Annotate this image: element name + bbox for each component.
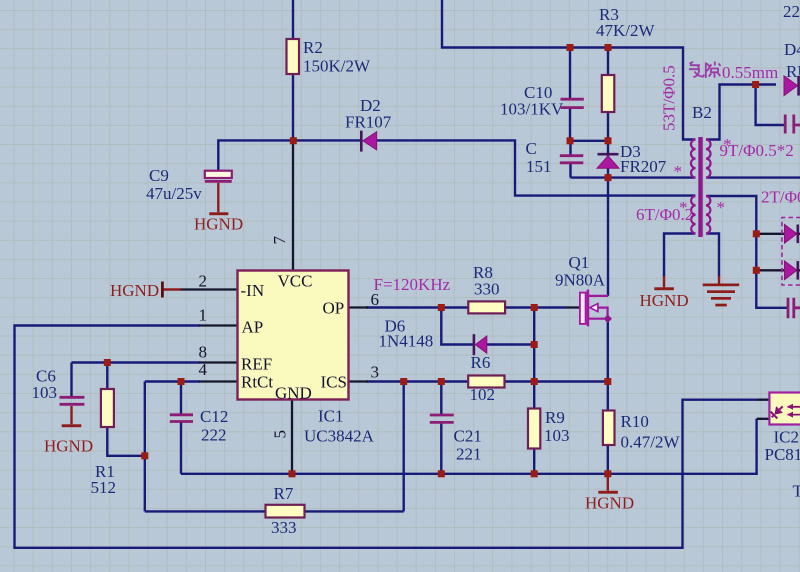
node ICS-R7 <box>400 378 407 385</box>
svg-text:5: 5 <box>271 430 290 439</box>
wire RtCt row <box>145 380 200 382</box>
wire OP node down to ICS row <box>533 308 535 382</box>
wire Q1 source / R10 column <box>607 319 609 474</box>
node VCC junction <box>290 137 297 144</box>
resistor R8 <box>468 301 505 313</box>
svg-text:8: 8 <box>199 343 208 362</box>
transistor Q1 MOSFET <box>566 290 612 327</box>
node C10 bottom <box>567 137 574 144</box>
svg-text:C: C <box>526 139 537 158</box>
wire 9T winding bottom row <box>706 176 800 178</box>
svg-text:4: 4 <box>199 360 208 379</box>
node diode B branch <box>753 267 760 274</box>
wire R3 column <box>607 48 609 141</box>
svg-text:1: 1 <box>199 306 208 325</box>
wire C21 column <box>440 382 442 474</box>
svg-text:9N80A: 9N80A <box>555 271 606 290</box>
svg-text:RtCt: RtCt <box>241 373 273 392</box>
svg-text:C21: C21 <box>454 427 482 446</box>
wire C12 column <box>180 382 182 474</box>
node ground row R9 <box>531 470 538 477</box>
power port HGND below C9 <box>194 183 243 234</box>
svg-text:IC2: IC2 <box>774 428 800 447</box>
svg-text:VCC: VCC <box>278 272 313 291</box>
wire ground row to IC2 lower pin <box>181 419 757 474</box>
svg-text:2: 2 <box>199 272 208 291</box>
node D4 branch <box>752 81 759 88</box>
wire C10 column <box>569 48 571 141</box>
wire REF row <box>72 361 201 363</box>
capacitor C6 <box>60 397 85 404</box>
transformer 2T winding <box>706 196 710 234</box>
svg-text:151: 151 <box>526 157 552 176</box>
svg-text:1N4148: 1N4148 <box>379 332 434 351</box>
svg-text:HGND: HGND <box>585 494 634 513</box>
wire 9T winding top to D4 row <box>706 85 776 140</box>
pin stubs of IC2 <box>757 400 770 419</box>
diode D3 FR207 <box>597 154 619 168</box>
node R1-RtCt riser <box>141 452 148 459</box>
wire diode B feed <box>756 269 800 271</box>
svg-text:R7: R7 <box>274 484 294 503</box>
svg-text:UC3842A: UC3842A <box>304 427 375 446</box>
node ground row R10 <box>604 470 611 477</box>
capacitor C9 polarized <box>205 171 232 182</box>
svg-text:HGND: HGND <box>44 437 93 456</box>
svg-text:0.47/2W: 0.47/2W <box>621 433 681 452</box>
svg-text:C12: C12 <box>200 407 228 426</box>
wire snubber middle link <box>570 140 608 142</box>
pin 1 of IC1 <box>199 324 238 326</box>
svg-text:103: 103 <box>32 383 58 402</box>
svg-text:R2: R2 <box>303 38 323 57</box>
wire D2 cathode to 6T winding top <box>377 140 696 195</box>
wire D4 node branch to cap <box>756 85 785 126</box>
wire D6 right link <box>484 343 534 345</box>
svg-text:PC817: PC817 <box>765 445 800 464</box>
node GND pin 5 <box>289 470 296 477</box>
wire R7 row <box>145 510 404 512</box>
node C10 top <box>567 44 574 51</box>
pin 5 of IC1 <box>291 400 293 474</box>
svg-text:R9: R9 <box>545 408 565 427</box>
svg-text:HGND: HGND <box>194 215 243 234</box>
node ICS-R10 <box>604 378 611 385</box>
node R3 top <box>605 44 612 51</box>
resistor R6 <box>468 376 504 388</box>
wire Q1 drain column <box>607 178 609 296</box>
capacitor C21 <box>430 415 454 422</box>
svg-text:R10: R10 <box>621 412 649 431</box>
node ICS-C21 <box>438 378 445 385</box>
wire R9 column <box>533 382 535 474</box>
transformer 9T winding <box>706 140 711 178</box>
svg-text:103/1KV: 103/1KV <box>500 100 564 119</box>
dashed box around rectifier diodes <box>782 218 800 286</box>
wire diode A feed <box>756 233 800 235</box>
wire R7 riser <box>403 382 405 512</box>
svg-text:53T/Φ0.5: 53T/Φ0.5 <box>660 65 679 131</box>
wire ICS row <box>366 380 608 382</box>
capacitor at D4 output <box>785 115 800 134</box>
air gap label: QiXi glyphs <box>689 62 721 79</box>
resistor R9 <box>528 409 540 449</box>
node ICS-R9 <box>531 378 538 385</box>
resistor R1 <box>101 389 114 427</box>
node R3 bottom <box>605 137 612 144</box>
svg-text:221: 221 <box>456 445 482 464</box>
svg-text:HGND: HGND <box>640 291 689 310</box>
earth ground below 2T winding <box>703 276 740 306</box>
wire C6 column <box>70 363 72 397</box>
svg-text:R6: R6 <box>471 353 491 372</box>
pin 2 of IC1 <box>180 288 238 290</box>
svg-text:*: * <box>717 198 726 217</box>
diode D6 1N4148 <box>474 334 487 355</box>
pin 6 of IC1 <box>349 306 369 308</box>
svg-text:2T/Φ0.5: 2T/Φ0.5 <box>761 188 800 207</box>
capacitor C 151 <box>560 156 584 163</box>
wire 2T winding bottom to earth <box>706 234 719 278</box>
svg-text:7: 7 <box>270 236 289 245</box>
node RtCt-C12 <box>178 378 185 385</box>
wire OP row to gate <box>366 306 566 308</box>
wire VCC node to D2 anode <box>293 139 360 141</box>
transformer 6T winding <box>691 196 695 234</box>
svg-text:IC1: IC1 <box>318 407 344 426</box>
diode B of output rectifier <box>785 261 798 280</box>
svg-text:*: * <box>679 198 688 217</box>
wire 2T winding top to rectifier column <box>706 196 787 308</box>
wire D3 column <box>607 141 609 178</box>
node ground row C21 <box>438 470 445 477</box>
resistor R7 <box>266 505 305 518</box>
svg-text:103: 103 <box>544 426 570 445</box>
svg-text:47u/25v: 47u/25v <box>146 184 202 203</box>
wire primary bottom row to 53T winding <box>571 176 696 178</box>
svg-text:330: 330 <box>474 280 500 299</box>
svg-text:224: 224 <box>783 2 800 21</box>
svg-text:0.55mm: 0.55mm <box>722 63 778 82</box>
svg-text:REF: REF <box>241 355 272 374</box>
svg-text:Q1: Q1 <box>569 253 590 272</box>
pin 3 of IC1 <box>349 380 369 382</box>
svg-text:102: 102 <box>470 385 496 404</box>
node OP-R8 right <box>531 304 538 311</box>
svg-text:FR207: FR207 <box>620 157 667 176</box>
svg-text:*: * <box>674 162 683 181</box>
node D6 cathode branch <box>531 341 538 348</box>
power port HGND at pin 2 <box>110 281 181 300</box>
svg-text:47K/2W: 47K/2W <box>596 21 656 40</box>
node OP-R8 left <box>438 304 445 311</box>
pin 7 of IC1 <box>292 140 294 270</box>
wire R1 column <box>107 363 145 456</box>
node D3 anode / primary bottom <box>605 174 612 181</box>
svg-text:OP: OP <box>323 299 345 318</box>
svg-text:AP: AP <box>242 318 264 337</box>
svg-text:-IN: -IN <box>241 281 265 300</box>
pin 8 of IC1 <box>199 361 238 363</box>
svg-text:T101: T101 <box>793 482 800 501</box>
resistor R2 <box>287 39 300 74</box>
transformer 53T primary winding <box>691 140 696 178</box>
svg-text:6: 6 <box>371 290 380 309</box>
optocoupler IC2 body <box>768 393 800 425</box>
op-amp IC1 UC3842A body <box>238 271 349 400</box>
svg-text:GND: GND <box>275 384 312 403</box>
power port HGND below 6T winding <box>640 276 689 310</box>
resistor R3 <box>602 75 615 112</box>
svg-text:RU: RU <box>786 62 800 81</box>
svg-text:3: 3 <box>371 363 380 382</box>
capacitor at rectifier output <box>788 298 800 319</box>
node REF-R1 <box>104 359 111 366</box>
svg-text:D4: D4 <box>784 40 800 59</box>
svg-text:*: * <box>723 135 732 154</box>
capacitor C10 <box>561 99 584 107</box>
power port HGND below C6 <box>44 406 93 456</box>
transformer B2 core <box>698 137 702 237</box>
diode D2 FR107 <box>361 131 376 152</box>
svg-text:HGND: HGND <box>110 281 159 300</box>
wire AP feedback loop <box>15 326 758 548</box>
wire RtCt riser down to R7 row <box>144 382 146 512</box>
diode D4 <box>784 76 799 96</box>
wire HV bus: riser, top row, down to primary top <box>442 0 696 140</box>
svg-text:FR107: FR107 <box>345 113 392 132</box>
wire C151 column <box>569 141 571 178</box>
wire R2 column from top edge to VCC node <box>292 0 294 140</box>
svg-text:ICS: ICS <box>321 373 347 392</box>
svg-text:512: 512 <box>91 478 117 497</box>
pin 4 of IC1 <box>199 380 238 382</box>
wire C9 branch <box>218 140 293 171</box>
svg-text:B2: B2 <box>692 103 712 122</box>
svg-text:222: 222 <box>201 426 227 445</box>
resistor R10 <box>603 411 615 446</box>
svg-text:333: 333 <box>271 518 297 537</box>
wire 6T winding bottom to HGND <box>664 234 696 278</box>
diode A of output rectifier <box>785 225 798 244</box>
wire D6 left branch <box>441 308 473 345</box>
power port HGND below R10 <box>585 474 634 513</box>
svg-text:150K/2W: 150K/2W <box>303 57 371 76</box>
svg-text:C9: C9 <box>149 166 169 185</box>
capacitor C12 <box>170 415 193 422</box>
node diode A branch <box>753 230 760 237</box>
svg-text:F=120KHz: F=120KHz <box>374 275 451 294</box>
